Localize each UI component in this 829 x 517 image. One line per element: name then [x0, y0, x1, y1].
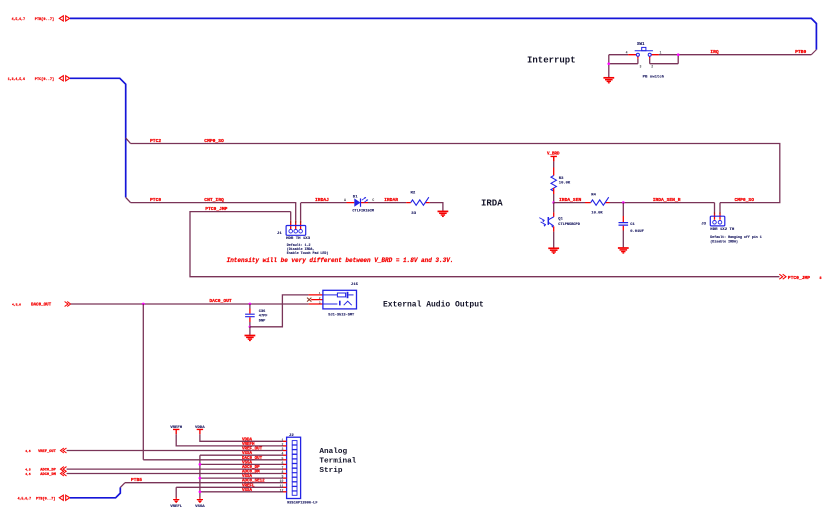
- svg-text:4,5,6,7: 4,5,6,7: [18, 496, 31, 500]
- svg-text:PTB5: PTB5: [131, 477, 142, 483]
- svg-text:IRDAJ: IRDAJ: [315, 197, 329, 203]
- svg-text:2: 2: [319, 297, 321, 300]
- svg-text:ADC0_DP: ADC0_DP: [40, 469, 56, 473]
- svg-text:0.01UF: 0.01UF: [630, 230, 644, 234]
- svg-text:Interrupt: Interrupt: [527, 55, 576, 65]
- svg-text:IRDA: IRDA: [481, 198, 503, 208]
- svg-text:IRQ: IRQ: [710, 49, 719, 55]
- svg-text:Strip: Strip: [319, 467, 342, 475]
- svg-text:8: 8: [820, 277, 822, 281]
- svg-text:D1: D1: [353, 195, 358, 199]
- svg-text:HDR 1X2 TH: HDR 1X2 TH: [710, 228, 735, 232]
- svg-text:J3: J3: [701, 223, 706, 227]
- svg-text:PTC0: PTC0: [150, 197, 161, 203]
- svg-text:C1: C1: [630, 223, 635, 227]
- svg-text:CTLFIR15CM: CTLFIR15CM: [352, 209, 374, 213]
- svg-text:3: 3: [640, 65, 642, 69]
- svg-text:Terminal: Terminal: [319, 458, 356, 466]
- svg-text:Intensity will be very differe: Intensity will be very different between…: [227, 257, 454, 264]
- svg-text:DNP: DNP: [259, 320, 265, 324]
- svg-text:IRDA_SEN_R: IRDA_SEN_R: [653, 197, 681, 203]
- svg-text:Default: Hanging off pin 1: Default: Hanging off pin 1: [710, 235, 761, 239]
- svg-text:R4: R4: [591, 193, 596, 197]
- svg-text:PTB0: PTB0: [795, 49, 806, 55]
- svg-text:3: 3: [319, 302, 321, 305]
- svg-text:R2: R2: [411, 191, 416, 195]
- svg-text:CTLPN5BCPD: CTLPN5BCPD: [558, 223, 580, 227]
- svg-text:PTC2: PTC2: [150, 138, 161, 144]
- svg-text:VSSA: VSSA: [195, 505, 205, 509]
- svg-text:IRDAR: IRDAR: [384, 197, 398, 203]
- svg-text:4,5: 4,5: [25, 473, 31, 476]
- svg-text:CMP0_SO: CMP0_SO: [735, 197, 755, 203]
- svg-text:PTB[0..7]: PTB[0..7]: [35, 17, 54, 22]
- svg-text:Enable Touch Pad LED): Enable Touch Pad LED): [287, 251, 329, 255]
- svg-text:ADC0_DM: ADC0_DM: [40, 473, 56, 477]
- svg-text:HDR TH 1X3: HDR TH 1X3: [286, 237, 311, 241]
- svg-text:1,3,4,5,6: 1,3,4,5,6: [8, 77, 25, 81]
- svg-text:4,5: 4,5: [25, 469, 31, 472]
- svg-text:PTC0_JMP: PTC0_JMP: [788, 275, 810, 281]
- svg-text:33: 33: [411, 212, 416, 216]
- svg-text:4,5: 4,5: [25, 450, 31, 453]
- svg-text:CNT_IRQ: CNT_IRQ: [204, 197, 224, 203]
- svg-text:Analog: Analog: [319, 448, 347, 456]
- svg-text:47PF: 47PF: [259, 314, 268, 318]
- svg-text:PB switch: PB switch: [643, 75, 665, 80]
- svg-text:DAC0_OUT: DAC0_OUT: [31, 303, 52, 307]
- svg-text:CMP0_SO: CMP0_SO: [204, 138, 224, 144]
- svg-text:2: 2: [651, 65, 653, 69]
- svg-text:SJ1-3513-SMT: SJ1-3513-SMT: [328, 314, 355, 318]
- svg-text:10.0K: 10.0K: [559, 182, 571, 186]
- svg-text:(Disable IRDA): (Disable IRDA): [710, 240, 738, 244]
- svg-text:4: 4: [626, 51, 628, 55]
- svg-text:1: 1: [319, 292, 321, 295]
- svg-text:4,5,6: 4,5,6: [12, 303, 21, 306]
- svg-text:10.0K: 10.0K: [591, 212, 603, 216]
- svg-text:J1: J1: [277, 232, 282, 236]
- svg-text:DAC0_OUT: DAC0_OUT: [209, 298, 231, 304]
- svg-text:PTC0_JMP: PTC0_JMP: [205, 206, 227, 212]
- svg-text:PTB[0..7]: PTB[0..7]: [36, 496, 55, 501]
- svg-text:SW1: SW1: [637, 43, 645, 47]
- svg-text:C36: C36: [259, 310, 265, 314]
- svg-text:J15: J15: [351, 283, 359, 287]
- svg-text:J2: J2: [289, 434, 294, 438]
- svg-text:Q1: Q1: [558, 218, 563, 222]
- svg-text:R3: R3: [559, 177, 564, 181]
- svg-text:N2516P12006-LF: N2516P12006-LF: [287, 502, 317, 506]
- svg-text:PTC[0..7]: PTC[0..7]: [35, 77, 54, 82]
- svg-text:1: 1: [660, 51, 662, 55]
- svg-text:VREFL: VREFL: [170, 505, 183, 509]
- svg-text:External Audio Output: External Audio Output: [383, 300, 484, 309]
- svg-text:VREF_OUT: VREF_OUT: [38, 450, 56, 454]
- svg-text:4,5,6,7: 4,5,6,7: [12, 17, 25, 21]
